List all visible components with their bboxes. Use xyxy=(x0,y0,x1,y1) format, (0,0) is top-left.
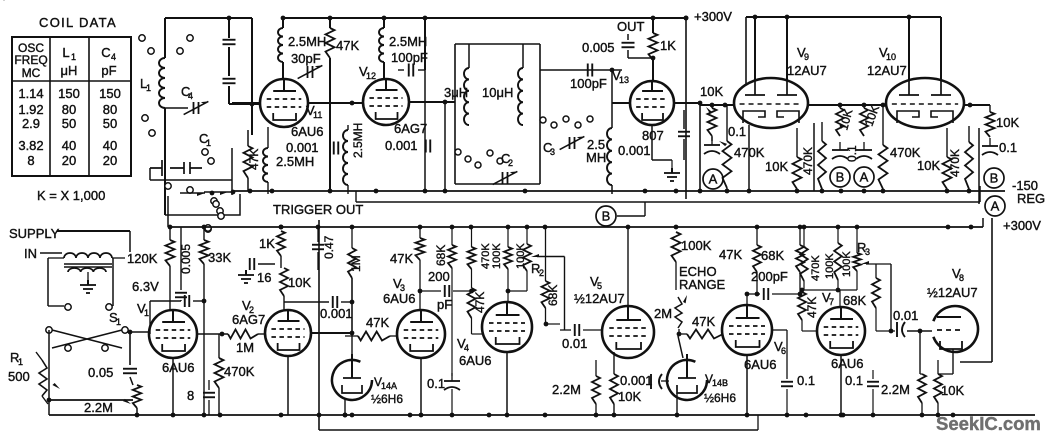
svg-text:500: 500 xyxy=(8,369,30,384)
svg-text:8: 8 xyxy=(27,153,34,168)
svg-text:6AU6: 6AU6 xyxy=(831,356,864,371)
svg-text:100pF: 100pF xyxy=(570,76,607,91)
svg-text:20: 20 xyxy=(103,153,117,168)
svg-text:IN: IN xyxy=(24,246,37,261)
svg-text:10K: 10K xyxy=(996,115,1019,130)
svg-text:0.47: 0.47 xyxy=(322,235,336,259)
svg-text:½6H6: ½6H6 xyxy=(704,391,736,405)
svg-text:OUT: OUT xyxy=(617,19,645,34)
svg-text:1: 1 xyxy=(116,317,121,327)
svg-text:47K: 47K xyxy=(336,38,359,53)
svg-text:20: 20 xyxy=(62,153,76,168)
svg-text:0.001: 0.001 xyxy=(385,138,418,153)
svg-text:10K: 10K xyxy=(941,383,964,398)
svg-text:47K: 47K xyxy=(366,315,389,330)
svg-text:470K: 470K xyxy=(810,255,822,281)
svg-text:807: 807 xyxy=(642,128,664,143)
svg-text:47K: 47K xyxy=(247,149,261,170)
svg-text:+300V: +300V xyxy=(694,9,732,24)
svg-text:47K: 47K xyxy=(473,292,487,313)
svg-text:14A: 14A xyxy=(381,381,397,391)
svg-text:10K: 10K xyxy=(917,158,940,173)
svg-text:SUPPLY: SUPPLY xyxy=(9,226,60,241)
svg-text:0.1: 0.1 xyxy=(845,145,859,162)
svg-text:3: 3 xyxy=(865,247,870,257)
svg-text:B: B xyxy=(836,170,845,185)
svg-text:μH: μH xyxy=(61,63,78,78)
svg-text:7: 7 xyxy=(829,297,834,307)
svg-text:47K: 47K xyxy=(390,251,413,266)
svg-text:+300V: +300V xyxy=(1003,218,1041,233)
svg-text:10K: 10K xyxy=(288,275,311,290)
svg-text:2.2M: 2.2M xyxy=(881,382,910,397)
svg-text:100K: 100K xyxy=(824,253,836,279)
svg-text:6AU6: 6AU6 xyxy=(744,357,777,372)
svg-text:470K: 470K xyxy=(948,149,962,177)
svg-text:0.1: 0.1 xyxy=(845,373,863,388)
svg-text:COIL DATA: COIL DATA xyxy=(39,15,117,30)
svg-text:3: 3 xyxy=(550,147,555,157)
svg-text:14B: 14B xyxy=(712,378,728,388)
svg-text:50: 50 xyxy=(103,116,117,131)
svg-text:30pF: 30pF xyxy=(291,51,321,66)
svg-text:1K: 1K xyxy=(660,38,676,53)
svg-text:FREQ: FREQ xyxy=(14,53,47,67)
svg-text:6AU6: 6AU6 xyxy=(162,360,195,375)
svg-text:47K: 47K xyxy=(692,314,715,329)
svg-text:47K: 47K xyxy=(719,247,742,262)
svg-text:1.92: 1.92 xyxy=(18,102,43,117)
svg-text:80: 80 xyxy=(103,102,117,117)
svg-text:9: 9 xyxy=(804,52,809,62)
svg-text:50: 50 xyxy=(62,116,76,131)
svg-text:1K: 1K xyxy=(259,236,275,251)
svg-text:2.9: 2.9 xyxy=(22,116,40,131)
svg-text:1: 1 xyxy=(144,308,149,318)
svg-text:6AU6: 6AU6 xyxy=(459,353,492,368)
svg-text:C: C xyxy=(101,45,110,60)
svg-text:100K: 100K xyxy=(681,238,712,253)
svg-text:B: B xyxy=(602,209,611,224)
svg-text:0.001: 0.001 xyxy=(620,373,653,388)
svg-text:V: V xyxy=(0,0,8,3)
svg-text:6AG7: 6AG7 xyxy=(394,121,427,136)
svg-text:4: 4 xyxy=(188,91,193,101)
svg-text:6: 6 xyxy=(781,346,786,356)
svg-text:2M: 2M xyxy=(654,306,672,321)
svg-text:8: 8 xyxy=(959,273,964,283)
svg-text:2.5MH: 2.5MH xyxy=(276,154,314,169)
svg-text:½12AU7: ½12AU7 xyxy=(574,291,625,306)
svg-text:12AU7: 12AU7 xyxy=(787,63,827,78)
svg-text:470K: 470K xyxy=(224,364,255,379)
svg-text:A: A xyxy=(991,199,1000,214)
svg-text:33K: 33K xyxy=(208,250,231,265)
svg-text:3.82: 3.82 xyxy=(18,138,43,153)
svg-text:2.2M: 2.2M xyxy=(84,400,113,415)
svg-text:A: A xyxy=(860,170,869,185)
svg-text:½6H6: ½6H6 xyxy=(371,392,403,406)
svg-text:5: 5 xyxy=(597,281,602,291)
svg-text:13: 13 xyxy=(619,75,629,85)
svg-text:pF: pF xyxy=(101,63,116,78)
svg-text:0.1: 0.1 xyxy=(728,124,746,139)
svg-text:0.05: 0.05 xyxy=(88,365,113,380)
svg-text:REG: REG xyxy=(1017,191,1045,206)
svg-text:10: 10 xyxy=(886,52,896,62)
svg-text:2: 2 xyxy=(539,268,544,278)
svg-text:0.1: 0.1 xyxy=(797,373,815,388)
svg-text:6.3V: 6.3V xyxy=(132,279,159,294)
svg-text:200: 200 xyxy=(428,269,450,284)
svg-text:100K: 100K xyxy=(515,243,527,269)
svg-text:11: 11 xyxy=(313,110,322,120)
svg-text:3μH: 3μH xyxy=(444,85,468,100)
svg-text:68K: 68K xyxy=(843,293,866,308)
svg-text:0.1: 0.1 xyxy=(999,140,1017,155)
svg-text:16: 16 xyxy=(257,270,271,285)
svg-text:6AU6: 6AU6 xyxy=(291,124,324,139)
svg-text:L: L xyxy=(62,45,69,60)
svg-text:2: 2 xyxy=(508,158,513,168)
svg-text:4: 4 xyxy=(464,343,469,353)
svg-text:150: 150 xyxy=(99,86,121,101)
svg-text:68K: 68K xyxy=(761,248,784,263)
svg-text:½12AU7: ½12AU7 xyxy=(927,285,978,300)
svg-text:0.001: 0.001 xyxy=(286,140,319,155)
svg-text:4: 4 xyxy=(111,52,116,62)
svg-text:10K: 10K xyxy=(618,389,641,404)
svg-text:2.5MH: 2.5MH xyxy=(389,34,427,49)
svg-text:0.005: 0.005 xyxy=(582,40,615,55)
svg-text:68K: 68K xyxy=(434,245,448,266)
svg-text:0.01: 0.01 xyxy=(562,336,587,351)
svg-text:40: 40 xyxy=(62,138,76,153)
svg-text:2.5MH: 2.5MH xyxy=(288,34,326,49)
svg-text:6AU6: 6AU6 xyxy=(383,291,416,306)
svg-text:2.5MH: 2.5MH xyxy=(351,123,365,158)
svg-text:SeekIC.com: SeekIC.com xyxy=(936,413,1041,434)
svg-text:200pF: 200pF xyxy=(751,269,788,284)
svg-text:8: 8 xyxy=(187,388,194,403)
svg-text:0.01: 0.01 xyxy=(893,308,918,323)
svg-text:0.001: 0.001 xyxy=(320,306,353,321)
svg-text:12AU7: 12AU7 xyxy=(867,63,907,78)
svg-text:1.14: 1.14 xyxy=(18,86,43,101)
svg-text:0.1: 0.1 xyxy=(427,376,445,391)
svg-text:MH: MH xyxy=(586,150,606,165)
svg-text:100K: 100K xyxy=(491,243,503,269)
svg-text:TRIGGER OUT: TRIGGER OUT xyxy=(273,202,363,217)
svg-text:80: 80 xyxy=(62,102,76,117)
svg-text:K = X 1,000: K = X 1,000 xyxy=(37,188,105,203)
svg-text:RANGE: RANGE xyxy=(679,277,726,292)
svg-text:2.2M: 2.2M xyxy=(552,382,581,397)
svg-text:12: 12 xyxy=(366,71,376,81)
svg-text:150: 150 xyxy=(58,86,80,101)
svg-text:68K: 68K xyxy=(546,285,560,306)
svg-text:40: 40 xyxy=(103,138,117,153)
svg-text:1: 1 xyxy=(206,138,211,148)
svg-text:120K: 120K xyxy=(127,251,158,266)
svg-text:6AG7: 6AG7 xyxy=(232,312,265,327)
svg-text:10μH: 10μH xyxy=(482,85,513,100)
svg-text:A: A xyxy=(709,172,718,187)
svg-text:pF: pF xyxy=(437,297,452,312)
svg-text:10K: 10K xyxy=(700,84,723,99)
svg-text:MC: MC xyxy=(22,66,41,80)
svg-text:47K: 47K xyxy=(805,297,819,318)
svg-text:100pF: 100pF xyxy=(391,50,428,65)
svg-text:1: 1 xyxy=(146,83,151,93)
svg-text:0.001: 0.001 xyxy=(618,143,651,158)
svg-text:470K: 470K xyxy=(801,147,815,175)
svg-text:100K: 100K xyxy=(841,251,853,277)
svg-text:1: 1 xyxy=(71,52,76,62)
svg-text:1M: 1M xyxy=(236,340,254,355)
svg-text:10K: 10K xyxy=(765,159,788,174)
svg-text:B: B xyxy=(990,171,999,186)
svg-text:1: 1 xyxy=(18,357,23,367)
